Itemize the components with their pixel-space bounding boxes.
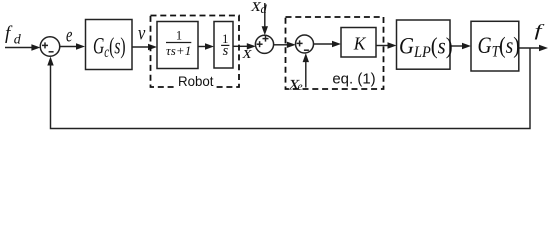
arrowhead into robot tau block xyxy=(148,44,157,50)
label Robot xyxy=(176,79,216,89)
svg-text:K: K xyxy=(353,34,367,54)
svg-text:eq. (1): eq. (1) xyxy=(332,70,375,87)
arrowhead into junction1 xyxy=(31,44,40,50)
summing junction 3 xyxy=(296,35,314,53)
svg-text:d: d xyxy=(261,2,268,16)
dashed box eq. (1) xyxy=(286,17,384,89)
arrowhead into integrator xyxy=(205,43,214,49)
wire G_LP to G_T xyxy=(450,45,463,47)
plus sign junction1 xyxy=(42,44,48,46)
plus sign junction2 top xyxy=(263,38,269,40)
arrowhead into G_LP xyxy=(388,42,397,48)
arrowhead into junction3 xyxy=(287,42,296,48)
svg-text:Gc(s): Gc(s) xyxy=(93,34,126,61)
svg-text:e: e xyxy=(298,81,303,93)
block K xyxy=(341,28,376,58)
svg-text:Robot: Robot xyxy=(178,73,214,89)
wire junction3 to K xyxy=(314,43,335,45)
dashed box Robot xyxy=(151,16,240,88)
block 1/s integrator xyxy=(214,22,233,69)
svg-text:s: s xyxy=(223,43,229,59)
svg-text:d: d xyxy=(14,33,22,48)
summing junction 2 xyxy=(255,35,273,53)
arrowhead into junction2 xyxy=(247,43,256,49)
plus sign junction3 left xyxy=(297,42,303,44)
wire v: Gc to robot box xyxy=(132,46,149,48)
block G_LP(s) xyxy=(397,20,451,69)
svg-text:GT(s): GT(s) xyxy=(478,33,520,61)
summing junction 1 xyxy=(40,37,60,57)
arrowhead into K xyxy=(332,41,341,47)
wire tau block to integrator xyxy=(198,46,206,48)
arrowhead into G_T xyxy=(462,43,471,49)
arrowhead output f xyxy=(539,45,548,51)
wire x_e input xyxy=(305,61,307,88)
wire feedback loop xyxy=(51,48,531,129)
block 1/(tau s + 1) xyxy=(157,22,198,69)
arrowhead feedback into junction1 xyxy=(47,57,53,66)
plus sign junction2 left xyxy=(257,43,263,45)
wire e: summing junction to Gc xyxy=(60,46,77,48)
block Gc(s) xyxy=(86,20,133,70)
wire K to G_LP xyxy=(376,45,388,47)
minus sign junction1 xyxy=(49,51,54,53)
svg-text:τs+1: τs+1 xyxy=(166,43,191,58)
svg-text:e: e xyxy=(66,23,73,46)
svg-text:v: v xyxy=(138,23,145,45)
wire f_d input xyxy=(5,47,33,49)
arrowhead x_e into junction3 xyxy=(303,53,309,62)
block G_T(s) xyxy=(471,21,519,71)
wire x: integrator to summing junction 2 xyxy=(233,45,248,47)
svg-text:1: 1 xyxy=(176,29,182,43)
arrowhead x_d into junction2 xyxy=(262,26,268,35)
minus sign junction3 bottom xyxy=(304,49,309,51)
wire x_d input xyxy=(264,3,266,28)
wire junction2 to junction3 xyxy=(274,44,288,46)
wire f output xyxy=(519,47,541,49)
arrowhead into Gc xyxy=(76,43,85,49)
